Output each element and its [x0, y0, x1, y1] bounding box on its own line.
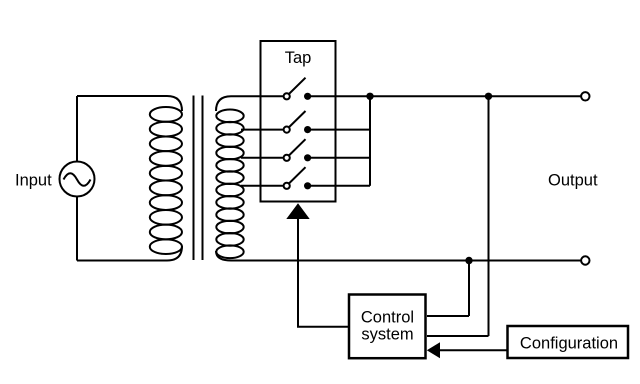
tap selector box [261, 41, 336, 202]
wire: selector output bus vertical [369, 96, 371, 186]
switch 2 pole [284, 127, 290, 133]
wire: switch 2 output to bus [308, 129, 370, 131]
node: bottom sense junction [465, 257, 472, 264]
wire: input left vertical upper [76, 96, 78, 162]
wire: secondary tap 2 lead to switch 2 [241, 129, 284, 131]
wire: top sense into control system [427, 335, 489, 337]
configuration box [508, 326, 629, 358]
output terminal bottom [581, 256, 589, 264]
wire: secondary tap 3 lead to switch 3 [241, 157, 284, 159]
wire: bottom sense into control system [427, 315, 469, 317]
wire: secondary tap 4 lead to switch 4 [241, 185, 284, 187]
output terminal top [581, 92, 589, 100]
wire: switch 4 output to bus [308, 185, 370, 187]
switch 2 blade [289, 111, 305, 127]
transformer primary winding [150, 96, 182, 261]
wire: input bottom horizontal [77, 260, 167, 262]
svg-text:Output: Output [548, 172, 598, 190]
node: switch 2 throw contact [304, 126, 311, 133]
svg-text:Input: Input [15, 172, 52, 190]
switch 3 blade [289, 139, 305, 155]
wire: bottom output sense drop [468, 261, 470, 317]
svg-text:Configuration: Configuration [520, 335, 618, 353]
transformer core [194, 96, 203, 261]
wire: input top horizontal [77, 95, 167, 97]
wire: top output sense drop [488, 96, 490, 336]
wire: secondary top tap lead to switch 1 [231, 95, 284, 97]
node: switch 3 throw contact [304, 154, 311, 161]
wire: switch 1 output to top output terminal [308, 95, 582, 97]
node: top sense junction [485, 93, 492, 100]
control system box [349, 295, 426, 359]
svg-text:Control: Control [361, 309, 414, 327]
switch 4 blade [289, 167, 305, 183]
node: switch 1 throw contact [304, 93, 311, 100]
svg-text:system: system [361, 326, 413, 344]
wire: configuration to control system [439, 349, 508, 351]
wire: input left vertical lower [76, 197, 78, 261]
arrowhead: control to tap selector [286, 203, 309, 219]
label: Control system [361, 309, 414, 344]
node: bus junction on top output wire [366, 93, 373, 100]
arrowhead: configuration into control system [427, 342, 440, 358]
switch 4 pole [284, 183, 290, 189]
node: switch 4 throw contact [304, 182, 311, 189]
switch 1 blade [289, 78, 305, 94]
switch 3 pole [284, 155, 290, 161]
ac voltage source (Input) [60, 162, 95, 197]
transformer secondary winding [216, 96, 244, 260]
wire: control output to tap selector [298, 218, 349, 327]
switch 1 pole [284, 93, 290, 99]
wire: output bottom from secondary [231, 260, 581, 262]
wire: switch 3 output to bus [308, 157, 370, 159]
svg-text:Tap: Tap [285, 49, 312, 67]
